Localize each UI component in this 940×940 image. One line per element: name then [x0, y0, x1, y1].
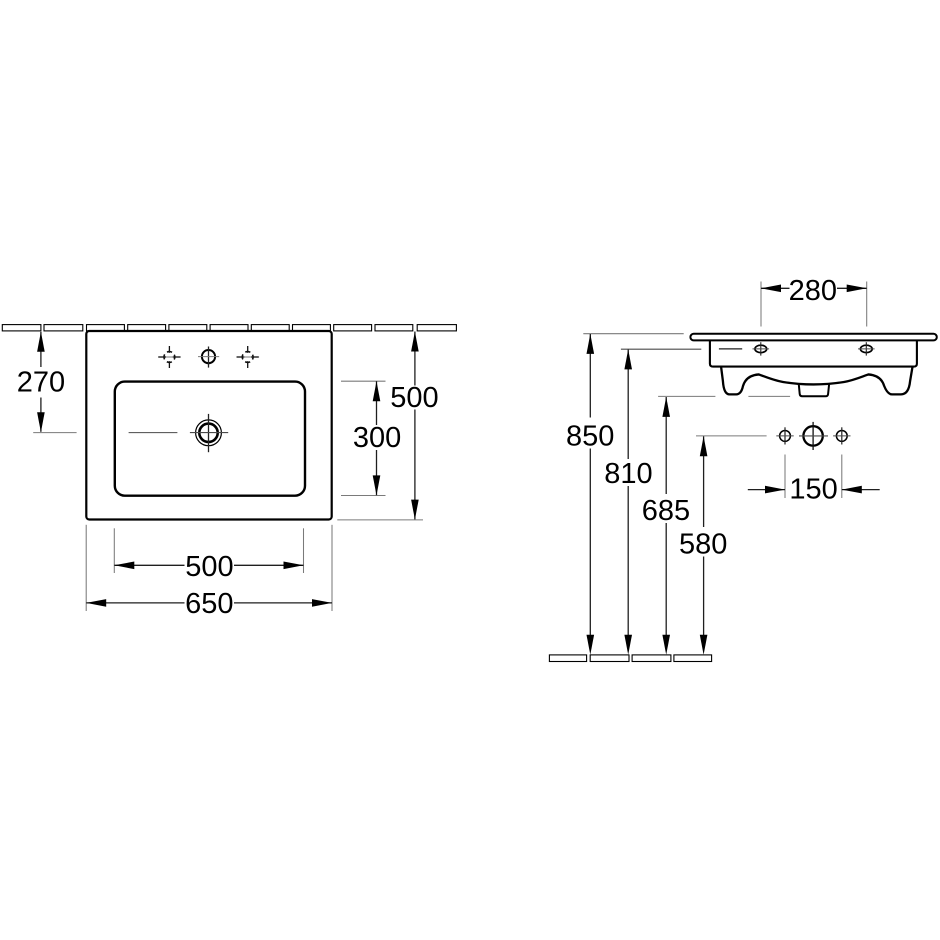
svg-text:650: 650	[185, 588, 233, 620]
svg-text:280: 280	[789, 275, 837, 307]
svg-text:270: 270	[17, 367, 65, 399]
svg-text:500: 500	[390, 382, 438, 414]
svg-text:500: 500	[185, 551, 233, 583]
svg-text:850: 850	[566, 420, 614, 452]
svg-text:580: 580	[679, 529, 727, 561]
svg-text:810: 810	[604, 458, 652, 490]
svg-text:150: 150	[789, 474, 837, 506]
svg-text:300: 300	[353, 422, 401, 454]
svg-text:685: 685	[642, 495, 690, 527]
